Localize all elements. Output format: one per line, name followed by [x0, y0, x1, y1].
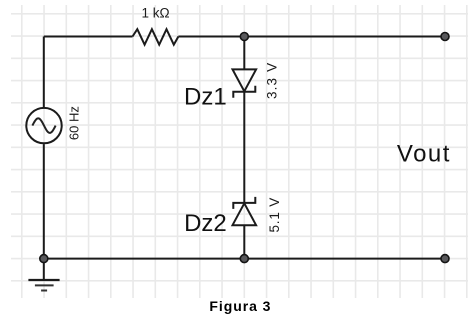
ground: [28, 259, 59, 291]
svg-text:60 Hz: 60 Hz: [67, 106, 82, 140]
zener diode Dz1: [233, 69, 257, 97]
wire: top rail left segment (source to resistor): [44, 36, 133, 38]
node: bottom right terminal: [441, 255, 449, 263]
svg-text:3.3 V: 3.3 V: [264, 62, 279, 99]
wire: middle branch top (node A down to Dz1): [243, 37, 245, 70]
resistor R1: [133, 29, 179, 45]
node: bottom middle junction: [240, 255, 248, 263]
node A (top middle junction): [240, 33, 248, 41]
zener diode Dz2: [233, 197, 257, 225]
svg-text:Dz1: Dz1: [184, 83, 227, 110]
wire: bottom rail: [44, 258, 445, 260]
node: ground junction (bottom left): [40, 255, 48, 263]
wire: left rail lower (source to bottom rail): [43, 144, 45, 259]
AC source V1: [26, 108, 61, 143]
wire: middle branch bottom (Dz2 to bottom rail): [243, 225, 245, 258]
svg-text:Dz2: Dz2: [184, 210, 227, 237]
svg-text:5.1 V: 5.1 V: [267, 197, 282, 233]
wire: top rail right segment (node A to Vout terminal): [244, 36, 445, 38]
svg-text:Figura 3: Figura 3: [209, 298, 271, 314]
svg-text:1 kΩ: 1 kΩ: [141, 6, 169, 21]
wire: left rail upper (top rail down to source): [43, 37, 45, 108]
wire: top rail middle segment (resistor to node A): [178, 36, 244, 38]
svg-text:Vout: Vout: [397, 141, 451, 168]
wire: middle branch (Dz1 to Dz2): [243, 92, 245, 203]
node: Vout terminal (top right): [441, 33, 449, 41]
